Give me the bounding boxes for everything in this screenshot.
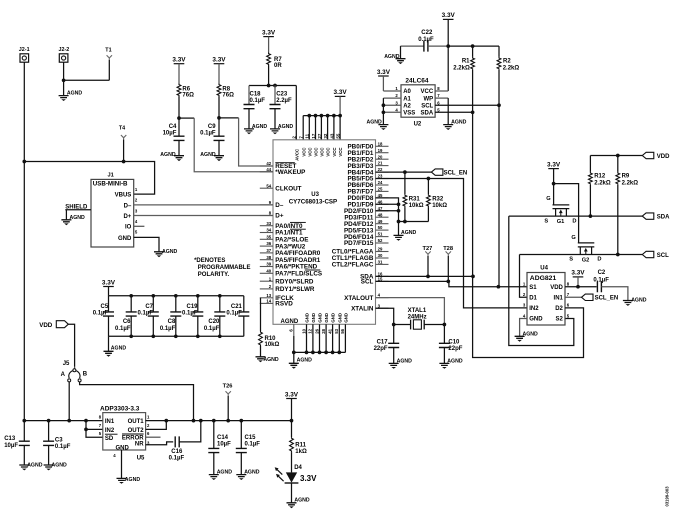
svg-text:S2: S2 [556,317,564,323]
svg-text:C21: C21 [231,304,243,310]
U3 right pin names [332,144,374,313]
net tag SCL_EN at IN1 [582,294,619,302]
svg-text:GND: GND [331,313,336,323]
svg-text:C16: C16 [171,449,183,455]
power 3.3V at cap bank [102,279,116,296]
svg-text:R12: R12 [594,173,606,179]
svg-text:38: 38 [266,255,271,260]
test point T1 [105,47,112,59]
svg-text:34: 34 [266,228,271,233]
wire T4 down [123,140,125,162]
svg-text:13: 13 [266,293,271,298]
svg-text:0.1µF: 0.1µF [138,310,154,316]
svg-text:3.3V: 3.3V [334,89,348,96]
svg-text:54: 54 [266,183,271,188]
svg-text:D1: D1 [529,296,537,302]
ground AGND at U2 VSS [367,112,389,130]
svg-text:C15: C15 [245,435,257,441]
svg-text:S: S [569,257,573,263]
svg-text:15: 15 [378,277,383,282]
wire OUT1/OUT2 tie [146,420,167,422]
wire PB5 to IN2 of U4 [376,179,528,308]
svg-text:IN2: IN2 [105,428,115,434]
svg-text:GND: GND [311,313,316,323]
junction VCC bus x=327.6 [326,114,330,118]
svg-text:ADP3303-3.3: ADP3303-3.3 [100,406,140,413]
svg-text:3.3V: 3.3V [571,270,585,277]
junction J2-2/T1 [62,78,66,82]
power 3.3V at R6 [172,57,186,84]
svg-text:AGND: AGND [523,331,539,337]
svg-text:A2: A2 [403,103,411,109]
svg-text:32: 32 [323,133,328,139]
wire Q2 source to U4 D1 [520,255,528,298]
resistor R32 10k [427,179,448,222]
resistor R8 76ohm [217,84,234,99]
svg-text:40: 40 [266,268,271,273]
resistor R11 1k [290,420,307,472]
svg-text:VCC: VCC [332,148,337,157]
junction OUT [164,419,168,423]
svg-text:R31: R31 [409,197,421,203]
svg-text:C7: C7 [145,304,153,310]
svg-text:24: 24 [378,180,383,185]
junctions input rail [22,419,26,423]
ground AGND at C22 [384,46,405,64]
svg-text:VCC: VCC [326,148,331,157]
wire 3.3V output rail [166,420,291,422]
U3 right pin stubs and numbers [376,141,389,308]
svg-text:C14: C14 [217,435,229,441]
svg-text:42: 42 [266,161,271,166]
resistor R31 10k [403,172,424,221]
transistor Q1 [544,184,576,226]
svg-text:3.3V: 3.3V [547,161,561,168]
LED D4 [275,465,317,483]
svg-text:D+: D+ [275,213,284,220]
svg-text:*DENOTES: *DENOTES [194,258,225,264]
svg-text:3.3V: 3.3V [285,391,299,398]
svg-text:2.2µF: 2.2µF [276,98,292,104]
svg-text:J2-2: J2-2 [59,47,70,53]
svg-text:37: 37 [266,248,271,253]
svg-text:AGND: AGND [244,470,260,476]
test point T28 [443,246,453,282]
ground AGND at C3 [44,445,67,470]
wire SCL external [520,254,643,256]
svg-text:IN2: IN2 [529,306,539,312]
svg-text:SCL: SCL [657,253,669,259]
svg-text:D2: D2 [555,306,563,312]
svg-text:VDD: VDD [657,154,670,160]
svg-text:C8: C8 [168,319,176,325]
capacitor labels bottom row [115,319,220,332]
svg-text:35: 35 [266,234,271,239]
junction VDD/3.3V [576,285,580,289]
svg-text:S: S [544,218,548,224]
svg-text:2.2kΩ: 2.2kΩ [594,180,611,186]
ground AGND at C23 [270,109,293,135]
svg-text:*WAKEUP: *WAKEUP [275,169,305,176]
svg-text:NR: NR [135,442,144,448]
power 3.3V at Q1/Q2 gates [547,161,561,183]
svg-text:10: 10 [301,328,306,333]
svg-text:AGND: AGND [397,358,413,364]
wire U2 SCL [435,104,499,106]
svg-text:C9: C9 [208,124,216,130]
power 3.3V at U2 A0 [377,69,391,91]
svg-text:C10: C10 [448,339,460,345]
svg-text:AGND: AGND [278,124,294,130]
note: DENOTES PROGRAMMABLE POLARITY [194,258,250,278]
svg-text:76Ω: 76Ω [182,93,194,99]
svg-text:J2-1: J2-1 [19,47,30,53]
wire J5 B to 3.3V rail [80,382,194,420]
svg-text:VCC: VCC [314,148,319,157]
svg-text:SCL_EN: SCL_EN [444,170,468,176]
svg-text:A1: A1 [403,96,411,102]
capacitors C5 C6 C7 C8 C19 C20 C21 [103,296,249,337]
wire AVCC pin drop [295,86,297,140]
wire SDA external [509,215,643,217]
connector J2-2 [59,47,70,62]
wire U2 WP to ground [435,97,448,99]
wire VDD pullup rail [590,155,642,157]
svg-text:SDA: SDA [657,215,670,221]
svg-text:12: 12 [308,328,313,333]
svg-text:GND: GND [118,236,132,242]
ground AGND at U3 [289,352,312,368]
junction IN2 [84,428,88,432]
svg-text:3.3V: 3.3V [212,57,226,64]
ground AGND at U4 [515,331,538,341]
capacitor C15 0.1uF [236,421,260,453]
svg-text:AGND: AGND [631,297,647,303]
svg-text:SD: SD [105,436,114,442]
svg-text:GND: GND [344,313,349,323]
svg-text:3.3V: 3.3V [102,279,116,286]
svg-text:28: 28 [321,328,326,333]
svg-text:U3: U3 [311,192,319,198]
junction SDA/D2 column [471,275,475,279]
svg-text:22pF: 22pF [448,346,462,352]
svg-text:T28: T28 [443,246,453,252]
svg-text:R8: R8 [222,86,230,92]
IC U4 ADG821 body [527,273,565,326]
capacitor C3 0.1uF [43,421,71,451]
junction PB4/R31 [403,170,407,174]
svg-text:47: 47 [378,206,383,211]
wire SCL from U3 pin15 [376,281,528,286]
junction VCC bus x=315.5 [314,114,318,118]
svg-text:D+: D+ [123,214,131,220]
svg-text:AGND: AGND [52,463,68,469]
junctions output rail [192,419,196,423]
wire VCC pin drop [308,116,310,140]
wire R8 to C9 [218,97,220,137]
svg-text:AGND: AGND [252,124,268,130]
resistor R1 2.2k [453,46,474,112]
wire VCC pin drop [302,116,304,140]
svg-text:R1: R1 [462,58,470,64]
junction SDA/R1 [471,110,475,114]
svg-text:41: 41 [327,328,332,333]
junction VCC bus x=309.3 [307,114,311,118]
svg-text:R32: R32 [432,197,444,203]
svg-text:C2: C2 [598,270,606,276]
U3 top pin numbers [292,133,341,139]
wire to RESET pin 42 [219,117,239,119]
ground AGND at WP [443,120,466,130]
junction T28/SCL [446,280,450,284]
wire PB4 to SCL_EN [376,171,432,173]
wire R6 to C4 [178,97,180,137]
wire U2 SDA [435,111,473,113]
svg-text:55: 55 [336,133,341,139]
wire R31/R32 ground bus [399,221,429,223]
junctions cap bank [129,294,221,338]
svg-text:G2: G2 [582,257,590,263]
U5 pin numbers [99,414,150,458]
junction PB5/R32 [427,177,431,181]
svg-text:50: 50 [378,225,383,230]
capacitor C16 0.1uF [169,436,185,461]
power 3.3V at C22 [442,12,456,19]
junction R7 bar [267,84,271,88]
svg-text:ERROR: ERROR [122,435,144,441]
test point T27 [423,246,433,277]
svg-text:2.2kΩ: 2.2kΩ [503,65,520,71]
svg-text:AVCC: AVCC [294,149,299,161]
svg-text:0.1µF: 0.1µF [204,326,220,332]
ground AGND at C14 [209,453,232,480]
svg-text:S1: S1 [529,285,537,291]
svg-text:T1: T1 [105,47,111,53]
ground AGND at C4 [160,140,184,161]
wire VCC pin drop [339,116,341,140]
wire Q1 source to U4 S2 [509,216,574,345]
ground AGND at C17 [389,348,412,369]
junction R9/SCL [616,253,620,257]
U3 AGND pin 6 [288,324,293,352]
svg-text:GND: GND [337,313,342,323]
svg-text:0.1µF: 0.1µF [250,98,266,104]
svg-text:RSVD: RSVD [275,301,293,308]
svg-text:33: 33 [266,221,271,226]
U5 pin names [105,419,144,451]
svg-text:J5: J5 [63,361,70,367]
svg-text:3.3V: 3.3V [300,474,317,483]
junction T4/VBUS [122,160,126,164]
junction C23 bar [273,84,277,88]
wire IN2/SD tie [86,421,103,438]
capacitor C13 10uF [4,421,30,449]
svg-text:45: 45 [378,193,383,198]
wire C16 to rail [179,420,201,442]
svg-text:AGND: AGND [67,90,83,96]
svg-text:46: 46 [378,199,383,204]
wire IFCLK to R10 [260,298,262,331]
svg-text:0.1µF: 0.1µF [93,310,109,316]
svg-text:53: 53 [334,328,339,333]
svg-text:0.1µF: 0.1µF [182,310,198,316]
IC U2 24LC64 body [401,85,435,117]
svg-text:SCL: SCL [421,103,433,109]
svg-text:VCC: VCC [320,148,325,157]
pin ERROR stub [146,436,161,438]
U2 pin numbers [395,86,440,112]
wire cap bank bottom rail [109,335,244,337]
wire J1 GND pin5 [134,237,159,251]
junction A2 [382,103,386,107]
svg-text:2.2kΩ: 2.2kΩ [622,180,639,186]
svg-text:CTL2/*FLAGC: CTL2/*FLAGC [332,262,374,269]
junctions U3 ground bus [292,351,341,355]
resistor R7 0R [267,53,283,69]
svg-text:T27: T27 [423,246,433,252]
svg-text:18: 18 [378,141,383,146]
svg-text:20: 20 [378,154,383,159]
svg-text:PA7/*FLD/SLCS: PA7/*FLD/SLCS [275,271,322,278]
junctions ground bus [397,220,401,224]
svg-text:44: 44 [266,167,271,172]
junctions PD1 PD2 [397,202,401,206]
junction 3.3V/C22 [446,44,450,48]
capacitor C10 22pF [439,325,463,352]
svg-text:25: 25 [378,187,383,192]
svg-text:AGND: AGND [70,215,86,221]
wire 3.3V to U2 VCC [447,19,449,91]
transistor Q2 [569,235,601,263]
IC U3 CY7C68013-CSP body [273,140,376,324]
ground AGND at J2-2 [59,80,83,101]
svg-text:WP: WP [424,96,434,102]
junction R1 top [471,44,475,48]
power 3.3V at R7 [262,29,276,52]
svg-text:0.1µF: 0.1µF [418,37,434,43]
svg-text:B: B [83,372,88,378]
svg-text:R6: R6 [182,86,190,92]
svg-text:AGND: AGND [297,357,313,363]
svg-text:0.1µF: 0.1µF [115,326,131,332]
svg-text:14: 14 [266,299,271,304]
junction XTALIN/C17 [392,323,396,327]
ground AGND at C10 [439,348,462,369]
svg-text:AGND: AGND [217,470,233,476]
wire J2-2 to ground junction [63,62,65,80]
svg-text:23: 23 [378,174,383,179]
svg-text:G1: G1 [557,219,565,225]
svg-text:C20: C20 [208,319,220,325]
U2 pin names [403,89,434,116]
svg-text:0.1µF: 0.1µF [226,310,242,316]
wire VCC pin drop [333,116,335,140]
svg-text:C23: C23 [276,91,288,97]
power 3.3V at output rail [285,391,299,420]
svg-text:R11: R11 [295,443,306,449]
wire SCL column down to S1 [498,105,500,287]
svg-text:GND: GND [324,313,329,323]
junction R9 top [616,154,620,158]
ground AGND at C9 [200,140,224,161]
svg-text:USB-MINI-B: USB-MINI-B [93,181,128,188]
ground AGND at C18 [244,109,267,135]
ground AGND at C15 [236,453,259,480]
resistor R12 2.2k [589,156,611,217]
resistor R2 2.2k [497,46,519,105]
wire C2 to ground [601,287,628,301]
wire PD0-PD2 ground tie [376,198,399,222]
svg-text:IN1: IN1 [554,296,564,302]
svg-text:C5: C5 [101,304,109,310]
svg-text:C22: C22 [421,30,433,36]
wire U3 ground bus [294,351,346,353]
junction VBUS at J2-1 rail [22,160,26,164]
svg-text:AGND: AGND [447,358,463,364]
svg-text:U5: U5 [137,455,145,461]
svg-text:A: A [61,372,66,378]
resistor R10 10k [259,331,280,348]
svg-text:VCC: VCC [421,89,434,95]
svg-text:A0: A0 [403,89,411,95]
svg-text:R10: R10 [265,336,277,342]
wire input rail [24,420,103,422]
wire gate supply to Q2 [554,184,579,243]
net tag VDD at J5 [39,321,68,330]
svg-text:29: 29 [378,247,383,252]
svg-text:T4: T4 [119,126,125,132]
svg-text:AGND: AGND [294,497,310,503]
capacitor C22 0.1uF [401,30,449,51]
ground AGND at C13 [19,445,42,470]
svg-text:10kΩ: 10kΩ [409,203,424,209]
svg-text:0.1µF: 0.1µF [55,444,71,450]
ground AGND at U5 [117,477,141,484]
svg-text:R9: R9 [622,173,630,179]
svg-text:21: 21 [378,161,383,166]
svg-text:AGND: AGND [281,319,299,325]
net tag VDD [642,152,670,160]
svg-text:22pF: 22pF [374,346,388,352]
wire SDA from U3 pin16 [376,275,474,277]
U4 pin names and numbers [523,282,570,323]
svg-text:76Ω: 76Ω [222,93,234,99]
svg-text:49: 49 [378,219,383,224]
wire U5 GND pin4 [121,450,123,478]
ground AGND at J1 GND [154,249,178,257]
wire VDD to J5 [68,324,74,366]
junction R6/C4/WAKEUP [177,116,181,120]
svg-text:24LC64: 24LC64 [405,77,429,84]
connector J2-1 [19,47,30,62]
ground AGND at cap bank [104,336,127,356]
U3 left pin stubs and numbers [260,161,273,303]
wire NR to C16 [146,442,174,445]
junction T27/SDA [426,275,430,279]
svg-text:C18: C18 [250,91,262,97]
svg-text:SCL_EN: SCL_EN [595,296,619,302]
svg-text:AGND: AGND [367,120,383,126]
svg-text:17: 17 [311,133,316,139]
U3 bottom GND pins [281,313,349,352]
svg-text:VCC: VCC [338,148,343,157]
svg-text:C19: C19 [186,304,198,310]
svg-text:AGND: AGND [162,249,178,255]
resistor R9 2.2k [616,156,638,255]
svg-text:D: D [597,257,601,263]
junction SCL/R2 [497,103,501,107]
ground AGND at R10 [256,346,279,363]
